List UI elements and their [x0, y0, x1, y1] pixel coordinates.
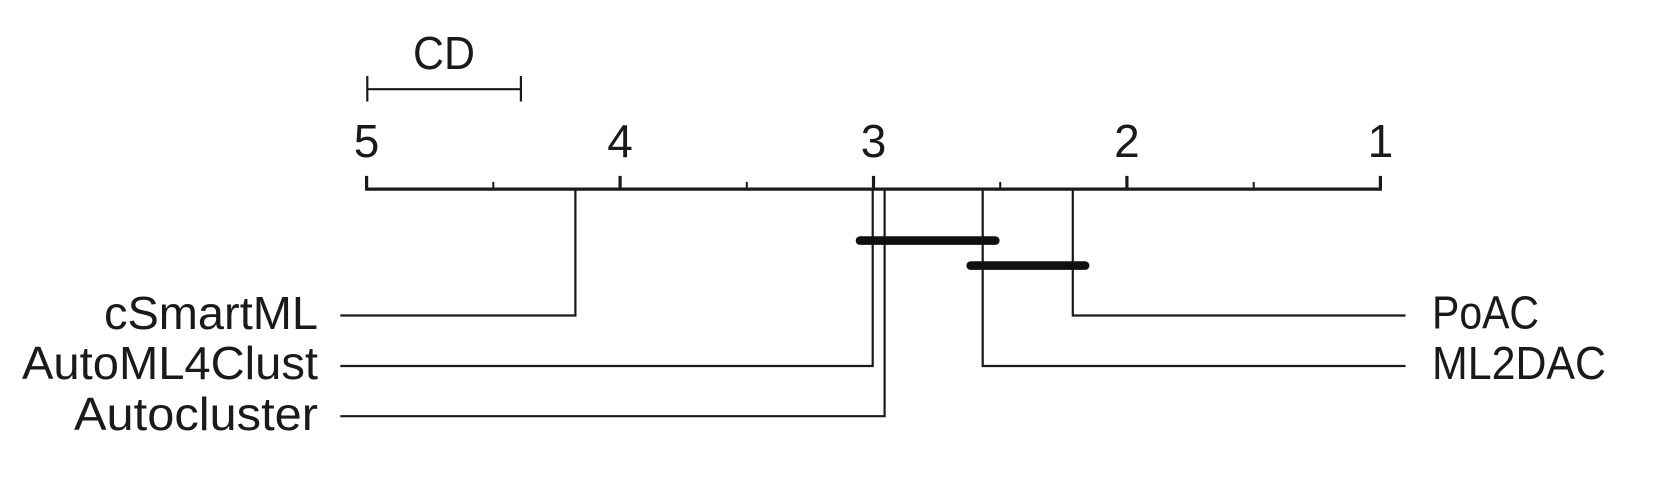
svg-text:CD: CD [413, 27, 475, 79]
svg-text:2: 2 [1114, 115, 1140, 167]
svg-text:cSmartML: cSmartML [104, 287, 318, 339]
svg-text:ML2DAC: ML2DAC [1432, 337, 1606, 389]
svg-text:5: 5 [354, 115, 380, 167]
svg-text:PoAC: PoAC [1432, 287, 1539, 339]
svg-text:Autocluster: Autocluster [74, 388, 318, 440]
svg-text:4: 4 [607, 115, 633, 167]
svg-text:AutoML4Clust: AutoML4Clust [22, 337, 318, 389]
svg-text:1: 1 [1368, 115, 1394, 167]
svg-text:3: 3 [861, 115, 887, 167]
